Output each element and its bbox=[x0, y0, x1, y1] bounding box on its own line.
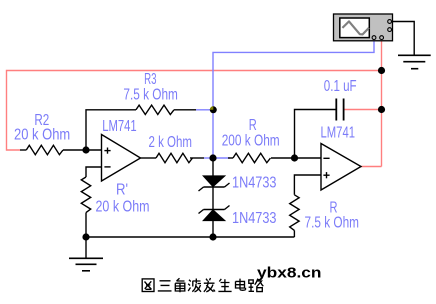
svg-text:1N4733: 1N4733 bbox=[232, 210, 277, 227]
svg-text:ybx8.cn: ybx8.cn bbox=[257, 265, 322, 282]
svg-text:7.5 k Ohm: 7.5 k Ohm bbox=[123, 87, 177, 104]
svg-text:LM741: LM741 bbox=[321, 125, 356, 142]
svg-text:1N4733: 1N4733 bbox=[232, 175, 277, 192]
svg-text:0.1 uF: 0.1 uF bbox=[324, 78, 357, 95]
svg-text:LM741: LM741 bbox=[102, 118, 137, 135]
svg-text:20 k Ohm: 20 k Ohm bbox=[14, 126, 70, 143]
svg-text:20 k Ohm: 20 k Ohm bbox=[96, 199, 150, 216]
svg-text:R': R' bbox=[116, 182, 128, 199]
svg-text:2 k Ohm: 2 k Ohm bbox=[149, 134, 193, 151]
svg-text:7.5 k Ohm: 7.5 k Ohm bbox=[305, 215, 360, 232]
svg-text:200 k Ohm: 200 k Ohm bbox=[222, 133, 280, 150]
svg-text:R: R bbox=[249, 117, 257, 134]
